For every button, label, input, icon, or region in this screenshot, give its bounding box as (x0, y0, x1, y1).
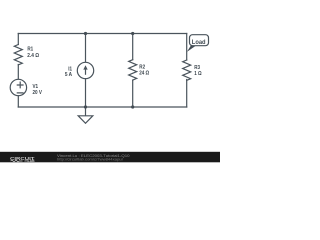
ground (85, 107, 87, 116)
node junction dots (84, 32, 134, 109)
svg-text:R3: R3 (194, 65, 200, 71)
svg-text:5 A: 5 A (65, 72, 73, 78)
svg-text:R2: R2 (139, 65, 145, 71)
wire R3 branch top lead (186, 34, 188, 61)
wire I1 branch top lead (85, 34, 87, 63)
node R2-bottom (131, 105, 134, 108)
svg-text:▭LAB: ▭LAB (25, 159, 36, 163)
svg-text:http://circuitlab.com/c/7ww844: http://circuitlab.com/c/7ww844xapur (57, 157, 124, 162)
wire I1 to bottom (85, 79, 87, 107)
svg-text:Load: Load (192, 39, 206, 46)
footer credit text (57, 153, 130, 162)
current source I1 (77, 62, 93, 78)
wire left branch top lead (17, 34, 19, 45)
wire R3 to bottom (186, 80, 188, 108)
node ground-bottom (84, 105, 87, 108)
svg-text:1 Ω: 1 Ω (194, 71, 202, 77)
svg-text:20 V: 20 V (33, 90, 42, 96)
I1 arrow (83, 65, 87, 75)
svg-text:R1: R1 (27, 46, 33, 52)
svg-text:2.4 Ω: 2.4 Ω (27, 53, 39, 59)
resistor R2 (129, 60, 137, 80)
wire R2 branch top lead (132, 34, 134, 60)
voltage source V1 (10, 79, 26, 95)
wire V1 to bottom (17, 96, 19, 107)
component labels (27, 46, 202, 96)
node R2-top (131, 32, 134, 35)
resistor R3 (183, 60, 191, 80)
footer bar (0, 152, 220, 163)
svg-text:24 Ω: 24 Ω (139, 71, 149, 77)
node I1-top (84, 32, 87, 35)
wire top horizontal (18, 33, 186, 35)
wire R2 to bottom (132, 80, 134, 107)
footer logo CIRCUIT LAB (10, 156, 35, 163)
resistor R1 (14, 45, 22, 65)
Load callout bubble (187, 35, 209, 52)
wire R1 to V1 (17, 65, 19, 80)
wire bottom horizontal (18, 106, 186, 108)
